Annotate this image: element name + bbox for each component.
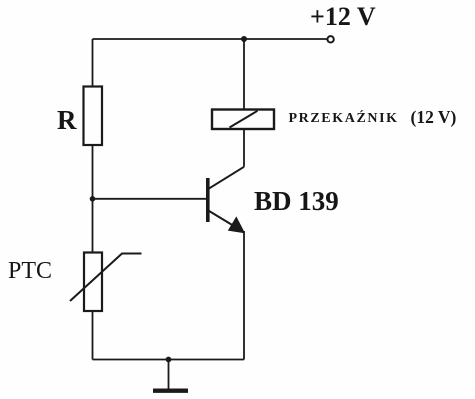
label (12 V) xyxy=(411,109,457,127)
label R xyxy=(57,105,77,136)
wire resistor to PTC (left vertical) xyxy=(92,145,94,253)
resistor R xyxy=(84,87,103,146)
wire relay to top rail (collector vertical upper) xyxy=(243,39,245,110)
wire base (junction to transistor) xyxy=(93,198,207,200)
label PRZEKAZNIK xyxy=(289,112,399,126)
transistor Q1 BD139 xyxy=(208,167,244,233)
wire top rail xyxy=(93,38,328,40)
ground xyxy=(153,360,188,391)
node collector/top-rail junction xyxy=(241,36,247,42)
relay K1 coil xyxy=(212,110,274,130)
label PTC xyxy=(8,258,52,285)
node ground junction xyxy=(166,357,172,363)
thermistor PTC xyxy=(70,253,142,312)
label +12 V xyxy=(310,2,376,32)
wire emitter to bottom rail xyxy=(243,231,245,360)
wire bottom rail xyxy=(93,359,245,361)
wire left branch top (rail to resistor) xyxy=(92,39,94,87)
node base junction xyxy=(90,196,96,202)
wire relay to transistor collector xyxy=(243,129,245,167)
terminal +12V open circle xyxy=(327,36,333,42)
wire PTC to bottom rail xyxy=(92,311,94,360)
label BD 139 xyxy=(254,186,339,217)
